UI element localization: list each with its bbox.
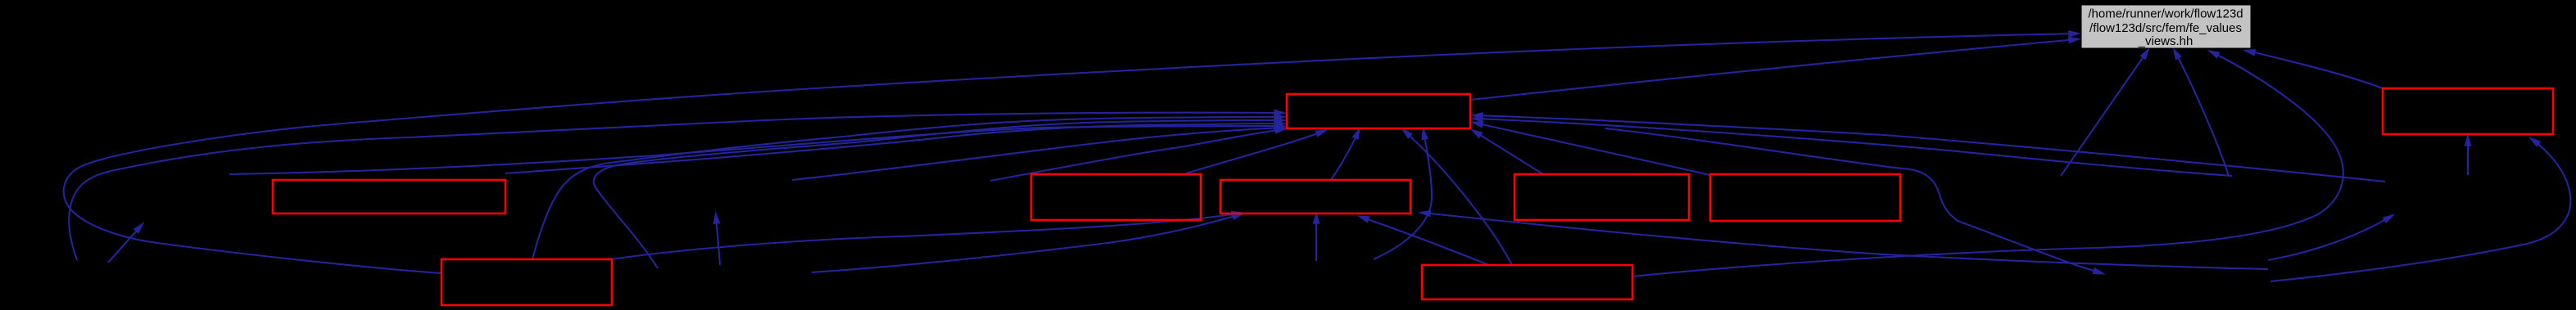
edge R to title <box>2247 51 2383 88</box>
edge B to hub: curve up through pinch <box>532 117 1283 259</box>
edge X4b to title bottom t4 <box>2175 51 2229 176</box>
edge X3 to D: long bottom line 2 <box>812 214 1241 272</box>
edge hub to title <box>1470 39 2077 100</box>
edge hub-area to X5: S-curve dive <box>1605 128 2102 273</box>
edge D to hub bottom <box>1331 131 1359 181</box>
edge G to hub bottom 2 <box>1404 131 1512 266</box>
edge I3 to hub right edge <box>1474 115 2385 182</box>
edge A left corner to hub <box>229 126 1283 174</box>
edge C to hub bottom <box>1186 131 1324 173</box>
edge X3 to X1: vertical arrow <box>716 215 720 265</box>
edge X4 to hub right edge <box>1474 119 2232 176</box>
edge bottom to D vertical <box>1315 215 1317 261</box>
edge Y1 to invisible node: short diagonal arrow <box>108 225 142 263</box>
node hub N1 (truncated, red) <box>1287 94 1470 128</box>
edge from bottom to I3 corner <box>2268 216 2392 260</box>
edge G left corner to D bottom <box>1360 217 1489 265</box>
edge F to hub right edge <box>1474 123 1710 175</box>
node D <box>1220 180 1410 213</box>
node B bottom left <box>441 259 612 305</box>
svg-text:_views.hh: _views.hh <box>2138 34 2193 48</box>
edge I3 to R: vertical <box>2467 137 2469 175</box>
edge E to hub bottom-right corner <box>1474 131 1543 174</box>
edge G to hub bottom: arc around D corner <box>1374 131 1432 259</box>
svg-text:/home/runner/work/flow123d: /home/runner/work/flow123d <box>2088 7 2243 21</box>
node R top right <box>2383 88 2553 134</box>
edge X5 to R: right hook <box>2270 139 2570 281</box>
title node: current file <box>2081 5 2251 48</box>
edge far right to D right edge <box>1422 213 2268 269</box>
node G bottom center <box>1422 265 1632 299</box>
edge A right corner to hub <box>505 124 1283 173</box>
edge X4a to title bottom t3 <box>2061 51 2148 176</box>
node E <box>1514 174 1689 220</box>
edge X3 to hub: curve up through pinch <box>594 120 1283 268</box>
edge Y1 to hub: inner left U-turn <box>69 113 1283 260</box>
node C <box>1031 174 1201 220</box>
node F <box>1710 174 1900 221</box>
edge B to D: long bottom line 1 <box>611 213 1240 260</box>
edge X2 to hub <box>990 129 1283 181</box>
edge B to title: long left U-turn sweep <box>64 34 2077 273</box>
svg-text:/flow123d/src/fem/fe_values: /flow123d/src/fem/fe_values <box>2089 21 2242 35</box>
edge G to title: long arc right <box>1632 52 2343 276</box>
edge X1 to hub <box>792 128 1283 180</box>
node A (truncated, red) <box>273 180 505 213</box>
